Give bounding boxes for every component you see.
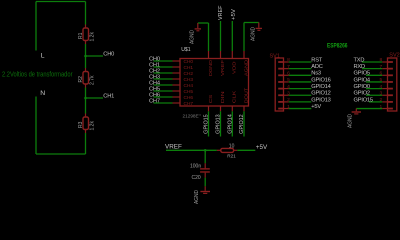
wire SV2-1 to ground xyxy=(356,108,382,110)
svg-text:1.2k: 1.2k xyxy=(90,32,96,42)
svg-text:GPIO13: GPIO13 xyxy=(216,114,222,134)
pin SV2-4 xyxy=(388,88,393,90)
pin CH4 xyxy=(173,84,181,86)
svg-text:CH7: CH7 xyxy=(184,101,194,107)
pin SV1-8 xyxy=(278,61,283,63)
wire CH2 xyxy=(154,72,173,74)
svg-text:GPIO12: GPIO12 xyxy=(239,114,245,134)
svg-text:AGND: AGND xyxy=(243,59,248,76)
pin SV1-6 xyxy=(278,74,283,76)
pin DOUT stub xyxy=(243,106,245,111)
wire GPIO14 xyxy=(231,111,233,136)
svg-text:CLK: CLK xyxy=(232,89,237,103)
ground AGND left of U$1 xyxy=(197,23,199,28)
capacitor C20 xyxy=(204,163,206,168)
wire GPIO15 xyxy=(208,111,210,136)
wire R21 to +5V xyxy=(237,149,255,151)
wire RXD xyxy=(362,68,382,70)
svg-text:R3: R3 xyxy=(78,121,84,128)
wire GPIO4 xyxy=(366,81,382,83)
wire C20 to ground xyxy=(204,178,206,187)
svg-text:DIN: DIN xyxy=(220,91,225,103)
pin SV2-5 xyxy=(388,81,393,83)
svg-text:VDD: VDD xyxy=(232,61,237,74)
wire +5V xyxy=(289,108,312,110)
svg-text:AGND: AGND xyxy=(194,190,200,204)
wire GPIO13 xyxy=(289,101,312,103)
svg-text:CS: CS xyxy=(208,95,213,104)
svg-text:GPIO15: GPIO15 xyxy=(204,114,210,134)
svg-text:+5V: +5V xyxy=(231,9,237,20)
svg-text:+5V: +5V xyxy=(311,104,321,110)
svg-text:+5V: +5V xyxy=(256,144,268,151)
wire R2 to R3 xyxy=(85,88,87,114)
svg-text:100n: 100n xyxy=(190,164,201,170)
pin SV2-6 xyxy=(388,74,393,76)
wire CH3 xyxy=(154,78,173,80)
wire left vertical from N pin xyxy=(35,97,37,155)
svg-text:GPIO2: GPIO2 xyxy=(354,91,370,97)
pin CLK stub xyxy=(231,106,233,111)
wire CH1 tap xyxy=(86,97,104,99)
svg-text:R2: R2 xyxy=(78,76,84,83)
wire junction down to C20 xyxy=(204,150,206,163)
svg-text:CH5: CH5 xyxy=(184,89,194,95)
wire GPIO5 xyxy=(366,74,382,76)
svg-text:GPIO12: GPIO12 xyxy=(311,91,330,97)
wire +5V up xyxy=(231,21,233,51)
wire R3 to bottom xyxy=(85,133,87,154)
svg-text:2.7k: 2.7k xyxy=(90,75,96,85)
svg-text:R21: R21 xyxy=(227,153,236,158)
wire GPIO15 xyxy=(369,101,382,103)
pin SV2-7 xyxy=(388,68,393,70)
pin CH6 xyxy=(173,96,181,98)
wire DGND up xyxy=(208,23,210,51)
connector SV2 body xyxy=(388,58,397,111)
pin CH1 xyxy=(173,66,181,68)
pin CH5 xyxy=(173,90,181,92)
pin VREF stub xyxy=(220,51,222,59)
resistor R2 xyxy=(85,68,87,72)
junction CH0 tap xyxy=(84,55,87,58)
pin DIN stub xyxy=(220,106,222,111)
wire RST xyxy=(289,61,312,63)
svg-text:TXD: TXD xyxy=(354,57,365,63)
svg-text:GPIO16: GPIO16 xyxy=(311,77,330,83)
wire CH4 xyxy=(154,84,173,86)
resistor R1 xyxy=(85,25,87,29)
wire CH0 xyxy=(154,60,173,62)
svg-text:ESP8266: ESP8266 xyxy=(327,43,348,50)
ground AGND below C20 xyxy=(204,186,206,191)
svg-text:CH1: CH1 xyxy=(103,93,114,99)
svg-text:GPIO14: GPIO14 xyxy=(311,84,330,90)
svg-text:CH4: CH4 xyxy=(184,83,194,89)
wire GPIO12 xyxy=(289,94,312,96)
pin CH3 xyxy=(173,78,181,80)
wire AGND up xyxy=(243,23,245,52)
pin SV2-8 xyxy=(388,61,393,63)
wire top from transformer L to R1 xyxy=(36,1,86,3)
svg-text:C20: C20 xyxy=(192,175,201,181)
wire TXD xyxy=(362,61,382,63)
svg-text:GPIO13: GPIO13 xyxy=(311,97,330,103)
pin CH7 xyxy=(173,102,181,104)
svg-text:CH0: CH0 xyxy=(103,51,114,57)
pin SV2-3 xyxy=(388,94,393,96)
pin SV1-1 xyxy=(278,108,283,110)
wire VREF horizontal xyxy=(166,149,217,151)
wire GPIO12 xyxy=(243,111,245,136)
svg-text:GPIO0: GPIO0 xyxy=(354,84,370,90)
wire ADC xyxy=(289,68,312,70)
wire CH1 xyxy=(154,66,173,68)
svg-text:L: L xyxy=(41,53,45,60)
wire bottom from N to R3 xyxy=(36,153,86,155)
wire Ns3 xyxy=(289,74,312,76)
wire GPIO2 xyxy=(366,94,382,96)
svg-text:ADC: ADC xyxy=(311,64,323,70)
wire AGND right xyxy=(244,22,259,24)
wire CH0 tap xyxy=(86,55,104,57)
svg-text:CH0: CH0 xyxy=(184,59,194,65)
svg-text:DGND: DGND xyxy=(208,59,213,76)
svg-text:2.2Voltios de transformador: 2.2Voltios de transformador xyxy=(2,71,73,79)
svg-text:10: 10 xyxy=(229,144,235,150)
pin SV1-4 xyxy=(278,88,283,90)
op-amp U$1 ADC box xyxy=(180,59,249,107)
wire top down to R1 xyxy=(85,2,87,25)
pin SV2-2 xyxy=(388,101,393,103)
connector SV1 body xyxy=(275,58,283,111)
svg-text:Ns3: Ns3 xyxy=(311,71,321,77)
wire left vertical to L pin xyxy=(35,2,37,51)
pin CH2 xyxy=(173,72,181,74)
wire GPIO14 xyxy=(289,88,312,90)
pin DGND stub xyxy=(208,51,210,59)
svg-text:CH6: CH6 xyxy=(184,95,194,101)
svg-text:AGND: AGND xyxy=(250,27,256,41)
svg-text:CH1: CH1 xyxy=(184,65,194,71)
wire CH5 xyxy=(154,90,173,92)
resistor R3 xyxy=(85,114,87,118)
pin VDD stub xyxy=(231,51,233,59)
wire GPIO13 xyxy=(220,111,222,136)
svg-text:AGND: AGND xyxy=(189,30,195,44)
junction CH1 tap xyxy=(84,97,87,100)
wire CH7 xyxy=(154,102,173,104)
svg-text:GPIO5: GPIO5 xyxy=(354,71,370,77)
svg-text:DOUT: DOUT xyxy=(243,88,248,104)
svg-text:N: N xyxy=(40,90,45,97)
svg-text:AGND: AGND xyxy=(347,114,353,128)
svg-text:GPIO14: GPIO14 xyxy=(228,114,234,134)
svg-text:RST: RST xyxy=(311,57,323,63)
svg-text:VREF: VREF xyxy=(220,60,225,76)
svg-text:CH3: CH3 xyxy=(184,77,194,83)
wire VREF up xyxy=(220,21,222,51)
svg-text:GPIO4: GPIO4 xyxy=(354,77,370,83)
svg-text:RXD: RXD xyxy=(354,64,366,70)
pin CH0 xyxy=(173,60,181,62)
pin SV2-1 xyxy=(388,108,393,110)
wire CH6 xyxy=(154,96,173,98)
svg-text:GPIO15: GPIO15 xyxy=(354,97,373,103)
wire GPIO16 xyxy=(289,81,312,83)
svg-text:VREF: VREF xyxy=(165,144,182,151)
svg-text:1.2k: 1.2k xyxy=(90,121,96,131)
ground AGND below SV2 pin1 xyxy=(355,109,357,112)
pin SV1-3 xyxy=(278,94,283,96)
wire R1 to R2 xyxy=(85,44,87,68)
svg-text:R1: R1 xyxy=(78,32,84,39)
svg-text:VREF: VREF xyxy=(218,5,224,20)
junction at C20 xyxy=(204,149,207,152)
svg-text:U$1: U$1 xyxy=(181,47,191,53)
pin CS stub xyxy=(208,106,210,111)
wire GPIO0 xyxy=(366,88,382,90)
ground AGND right of U$1 xyxy=(258,23,260,28)
wire DGND left xyxy=(198,22,209,24)
pin SV1-7 xyxy=(278,68,283,70)
pin SV1-2 xyxy=(278,101,283,103)
svg-text:CH2: CH2 xyxy=(184,71,194,77)
pin AGND stub xyxy=(243,51,245,59)
resistor R21 xyxy=(217,149,221,151)
pin SV1-5 xyxy=(278,81,283,83)
